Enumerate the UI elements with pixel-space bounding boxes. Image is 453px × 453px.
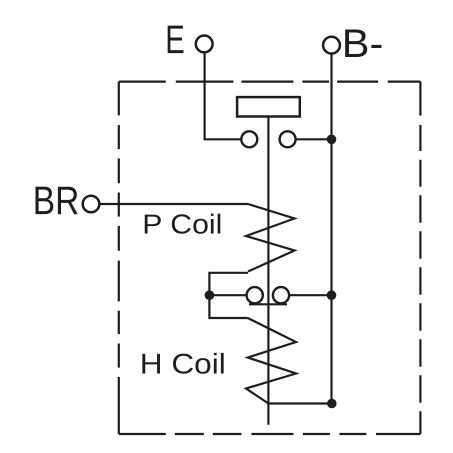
wire E to upper contact <box>205 52 242 139</box>
wire BR to P coil <box>99 203 248 205</box>
svg-text:E: E <box>165 18 185 62</box>
terminal BR <box>83 196 100 213</box>
node: upper contact / B- junction <box>327 135 337 145</box>
node: H coil / B- junction <box>327 399 337 409</box>
contact bridge bar <box>249 303 287 305</box>
upper contact right <box>280 131 296 147</box>
wire node A to H coil <box>209 295 247 318</box>
node A: coils / movable contact (left) <box>205 290 215 300</box>
wire B- bus <box>330 54 332 404</box>
armature link <box>267 117 269 425</box>
wire lower contact to B- bus <box>289 294 331 296</box>
terminal B- <box>323 37 340 54</box>
wire P coil return to node A <box>209 273 248 295</box>
coil H Coil (zigzag) <box>246 318 296 404</box>
wire upper contact right to B- bus <box>296 138 332 140</box>
lower contact right <box>273 287 289 303</box>
svg-text:P Coil: P Coil <box>142 208 222 239</box>
wire H coil to B- bus <box>268 402 331 404</box>
node: lower contact / B- junction <box>327 290 337 300</box>
coil P Coil (zigzag) <box>246 204 295 272</box>
wire node A to lower contact <box>209 294 246 296</box>
svg-text:B-: B- <box>342 22 384 66</box>
lower contact left <box>247 287 263 303</box>
svg-text:BR: BR <box>33 179 80 223</box>
terminal E <box>196 36 213 53</box>
relay coil core <box>237 97 300 116</box>
svg-text:H Coil: H Coil <box>140 348 226 380</box>
upper contact left <box>241 131 257 147</box>
relay enclosure (dashed) <box>119 82 421 434</box>
